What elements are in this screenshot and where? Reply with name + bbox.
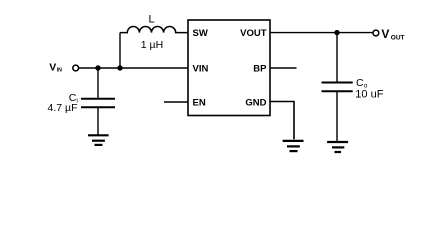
svg-text:C: C xyxy=(356,77,364,89)
svg-text:OUT: OUT xyxy=(391,35,405,42)
svg-text:L: L xyxy=(148,14,154,26)
op-amp U1 (IC box) xyxy=(188,20,270,116)
node VIN label xyxy=(49,62,62,74)
wire L riser xyxy=(119,33,121,68)
svg-text:VIN: VIN xyxy=(193,64,209,75)
wire Ci top xyxy=(97,68,99,99)
svg-text:BP: BP xyxy=(253,64,267,75)
svg-text:10 uF: 10 uF xyxy=(355,89,383,101)
node VOUT label xyxy=(381,27,404,42)
label Co xyxy=(356,77,368,90)
wire VIN horizontal xyxy=(79,67,188,69)
wire Co top xyxy=(336,33,338,83)
node junction Ci xyxy=(95,65,100,70)
capacitor Ci xyxy=(81,99,115,107)
inductor L1 xyxy=(120,27,188,33)
wire Co bottom xyxy=(336,91,338,142)
ground Ci xyxy=(88,135,109,145)
svg-text:1 µH: 1 µH xyxy=(141,39,163,51)
svg-text:4.7 µF: 4.7 µF xyxy=(48,102,78,114)
svg-text:EN: EN xyxy=(193,97,206,108)
svg-text:VOUT: VOUT xyxy=(240,28,267,39)
label Ci xyxy=(69,92,78,104)
capacitor Co xyxy=(322,83,353,92)
svg-text:IN: IN xyxy=(57,68,62,74)
ground Co xyxy=(327,142,348,152)
svg-text:SW: SW xyxy=(193,28,208,39)
wire EN stub xyxy=(164,101,188,103)
wire VOUT horizontal xyxy=(270,32,373,34)
wire GND route xyxy=(270,102,294,140)
node junction Co xyxy=(334,30,339,35)
wire Ci bottom xyxy=(97,107,99,135)
svg-text:V: V xyxy=(381,27,389,41)
wire BP stub xyxy=(270,67,297,69)
node junction L xyxy=(117,65,122,70)
ground GND pin xyxy=(283,141,304,151)
node VOUT terminal xyxy=(373,30,379,36)
svg-text:V: V xyxy=(49,62,56,74)
svg-text:GND: GND xyxy=(245,97,266,108)
node VIN terminal xyxy=(73,65,79,71)
